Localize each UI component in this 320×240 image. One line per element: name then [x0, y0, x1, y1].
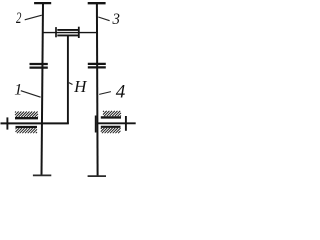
- lower-right bearing block solid bar: [101, 126, 121, 128]
- right bearing inner tick at shaft: [95, 116, 97, 133]
- hatching of lower-right bearing block: [101, 128, 121, 133]
- hatching of upper-right bearing block: [103, 111, 121, 116]
- svg-text:H: H: [73, 77, 88, 96]
- leader line of label H: [69, 83, 73, 85]
- gear 1 upper bar (left shaft): [30, 63, 48, 65]
- shaft of gears 3-4 (right vertical shaft): [96, 3, 99, 176]
- leader line of label 2: [25, 15, 42, 20]
- mesh axle thin line between shafts 2 and 3: [43, 32, 98, 34]
- gear 1 lower bar (left shaft): [30, 66, 48, 68]
- gear 4 upper bar (right shaft): [88, 63, 106, 65]
- right bearing end tick: [125, 116, 127, 131]
- mesh upper bar: [57, 29, 78, 31]
- leader line of label 1: [21, 91, 41, 98]
- svg-text:2: 2: [16, 10, 21, 27]
- left bearing axis / carrier arm: [1, 122, 69, 124]
- carrier H vertical shaft: [67, 36, 69, 124]
- svg-text:1: 1: [14, 82, 22, 99]
- right bearing axis: [96, 122, 135, 124]
- svg-text:4: 4: [116, 81, 126, 102]
- leader line of label 4: [99, 92, 111, 95]
- top T-bar of right shaft: [88, 2, 106, 4]
- mesh lower bar: [57, 34, 78, 36]
- upper-right bearing block solid bar: [101, 116, 121, 118]
- gear 4 lower bar (right shaft): [88, 66, 106, 68]
- bottom T-bar of left shaft: [33, 174, 51, 176]
- left bearing end tick: [6, 117, 8, 129]
- hatching of lower-left bearing block: [16, 128, 38, 133]
- mesh right tick: [78, 27, 80, 38]
- top T-bar of left shaft: [34, 2, 51, 4]
- lower-left bearing block solid bar: [16, 126, 38, 128]
- svg-text:3: 3: [112, 11, 120, 28]
- upper-left bearing block solid bar: [15, 117, 38, 119]
- bottom T-bar of right shaft: [88, 175, 106, 177]
- hatching of upper-left bearing block: [15, 112, 38, 118]
- leader line of label 3: [98, 17, 109, 21]
- shaft of gears 1-2 (left vertical shaft): [42, 3, 44, 175]
- mesh left tick: [55, 27, 57, 37]
